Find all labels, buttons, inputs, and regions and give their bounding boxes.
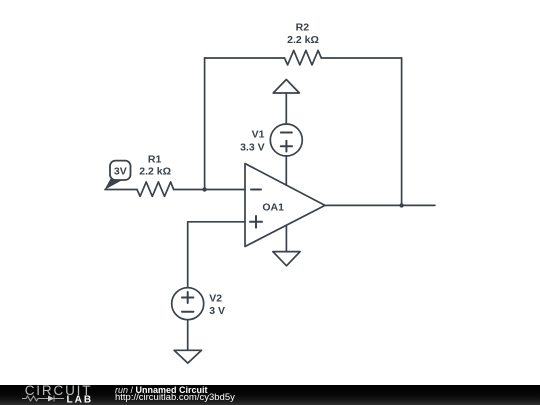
wire: V2 to ground — [187, 320, 189, 351]
svg-text:V1: V1 — [252, 129, 265, 141]
VCC arrow above V1 — [273, 80, 299, 94]
wire: non-inverting input branch — [188, 222, 245, 288]
wire: V1 top lead — [285, 93, 287, 124]
ground under V2 — [174, 350, 201, 363]
svg-text:LAB: LAB — [67, 394, 94, 405]
CircuitLab logo — [0, 385, 110, 405]
svg-text:3V: 3V — [114, 165, 127, 177]
logo resistor squiggle — [22, 396, 48, 401]
wire: op-amp bottom lead — [285, 226, 287, 252]
svg-text:3 V: 3 V — [209, 305, 225, 317]
wire: top rail right of R2 — [321, 57, 401, 59]
voltage source V2 circle — [172, 288, 204, 320]
wire: top rail left of R2 — [205, 57, 285, 59]
svg-text:3.3 V: 3.3 V — [240, 141, 265, 153]
wire: left vertical feedback branch — [204, 58, 206, 190]
svg-text:2.2 kΩ: 2.2 kΩ — [287, 34, 319, 46]
op-amp OA1 triangle — [245, 164, 325, 247]
svg-text:R1: R1 — [148, 153, 162, 165]
wire: flag to R1 left lead — [105, 189, 137, 191]
V1 plus symbol — [281, 141, 292, 152]
V1 minus symbol — [281, 132, 292, 134]
svg-text:R2: R2 — [296, 22, 310, 34]
voltage label flag 3V bubble — [110, 161, 131, 180]
logo diode — [48, 396, 54, 402]
wire: op-amp output — [325, 204, 435, 206]
voltage flag tail — [104, 179, 122, 190]
wire: right vertical feedback branch — [401, 58, 403, 205]
wire: V1 bottom lead to op-amp top — [285, 156, 287, 185]
svg-text:V2: V2 — [209, 293, 222, 305]
resistor R2 — [285, 50, 322, 65]
svg-text:2.2 kΩ: 2.2 kΩ — [139, 166, 171, 178]
footer line 1: run / Unnamed Circuit — [115, 386, 208, 396]
svg-text:OA1: OA1 — [262, 201, 284, 213]
footer line 2: url — [115, 393, 235, 403]
ground under op-amp — [273, 252, 300, 266]
footer bar — [0, 385, 540, 405]
V2 minus symbol — [182, 311, 193, 313]
op-amp plus input symbol — [250, 216, 262, 228]
voltage source V1 circle — [270, 124, 302, 156]
wire: R1 to op-amp inverting input — [174, 189, 245, 191]
node A junction dot — [202, 187, 206, 191]
node B junction dot — [399, 203, 403, 207]
resistor R1 — [137, 182, 174, 197]
V2 plus symbol — [182, 292, 193, 303]
op-amp minus input symbol — [251, 189, 261, 191]
